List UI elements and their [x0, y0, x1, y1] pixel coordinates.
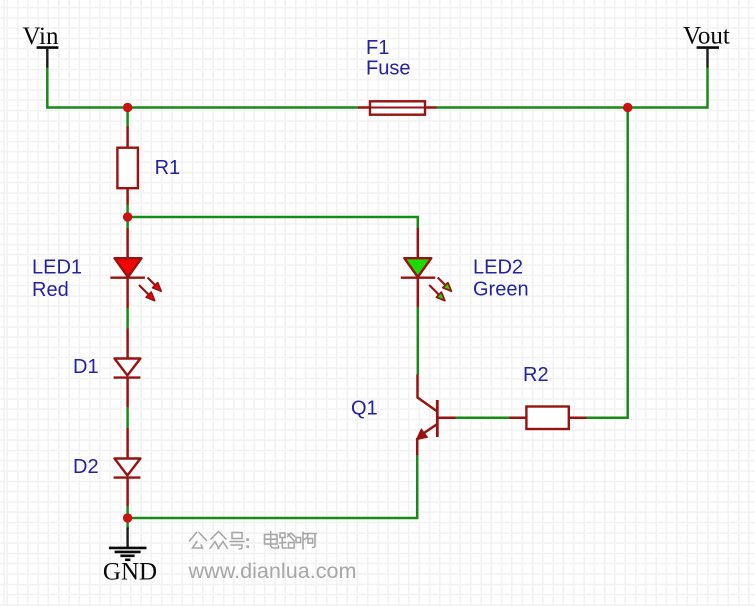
wire: D1 to D2 (green) — [126, 407, 129, 429]
junction node: ground — [123, 513, 132, 522]
svg-text:Vout: Vout — [683, 23, 730, 50]
diode D2 — [114, 428, 141, 507]
junction node: top-left — [123, 103, 132, 112]
svg-text:LED2: LED2 — [473, 256, 523, 278]
svg-text:F1: F1 — [366, 37, 389, 59]
junction node: top-right — [623, 103, 632, 112]
port Vin terminal — [37, 48, 59, 68]
svg-text:GND: GND — [103, 559, 157, 586]
diode D1 — [114, 329, 141, 408]
svg-text:Green: Green — [473, 278, 529, 300]
wire: R1 branch upper green — [126, 108, 129, 128]
wire: between R1 and LED1 (green) — [126, 205, 129, 229]
wire: LED1 to D1 (green) — [126, 308, 129, 329]
svg-text:LED1: LED1 — [32, 256, 82, 278]
junction node: LED branch — [123, 212, 132, 221]
resistor R1 — [117, 127, 137, 206]
svg-text:D2: D2 — [73, 456, 99, 478]
wire: branch to LED2 (horizontal green + drop) — [128, 217, 418, 229]
watermark: colon — [246, 538, 249, 548]
wire: D2 to ground node (green) — [126, 506, 129, 529]
svg-text:Red: Red — [32, 279, 69, 301]
ground symbol GND — [109, 528, 147, 560]
watermark: 路 — [280, 533, 295, 548]
watermark: 号 — [230, 533, 244, 550]
watermark: 电 — [265, 532, 279, 549]
resistor R2 — [510, 407, 588, 430]
port Vout terminal — [697, 48, 719, 68]
svg-text:R1: R1 — [155, 157, 181, 179]
wire: base to R2 (green) — [456, 416, 511, 419]
LED1 (red LED) — [110, 228, 161, 309]
svg-text:Vin: Vin — [23, 23, 59, 50]
watermark: 公 — [190, 533, 207, 549]
svg-text:R2: R2 — [523, 364, 549, 386]
fuse F1 — [358, 101, 437, 114]
svg-text:Q1: Q1 — [351, 398, 378, 420]
watermark: 啊 — [296, 532, 317, 549]
wire: main top rail (right green segment) — [437, 67, 708, 108]
wire: R2 to right rail (green) — [587, 108, 628, 418]
wire: main top rail (left green segment) — [47, 67, 357, 108]
wire: LED2 to Q1 collector (green) — [417, 307, 420, 375]
wire: bottom rail (green) — [128, 454, 418, 518]
svg-text:www.dianlua.com: www.dianlua.com — [188, 558, 357, 583]
svg-text:D1: D1 — [73, 356, 99, 378]
svg-text:Fuse: Fuse — [366, 58, 410, 80]
watermark: 众 — [210, 532, 228, 549]
LED2 (green LED) — [401, 228, 452, 308]
transistor Q1 — [416, 375, 456, 456]
